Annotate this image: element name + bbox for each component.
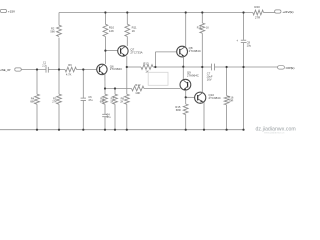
- svg-text:10R: 10R: [228, 98, 233, 102]
- svg-text:68K: 68K: [30, 99, 35, 103]
- svg-text:2K: 2K: [120, 99, 123, 103]
- svg-text:2TC984C: 2TC984C: [209, 96, 221, 100]
- svg-text:R6: R6: [68, 63, 72, 67]
- svg-text:56K: 56K: [50, 30, 55, 34]
- svg-text:+: +: [236, 39, 238, 43]
- svg-text:4.7K: 4.7K: [66, 73, 72, 77]
- svg-text:12K: 12K: [109, 29, 114, 33]
- svg-text:10K: 10K: [135, 91, 140, 95]
- svg-text:680: 680: [100, 99, 105, 103]
- svg-text:R13: R13: [143, 61, 149, 65]
- svg-text:1K: 1K: [132, 29, 136, 33]
- svg-text:47u: 47u: [88, 98, 93, 102]
- svg-text:10u: 10u: [247, 43, 252, 47]
- svg-text:1K: 1K: [110, 99, 113, 103]
- svg-text:2TC984C: 2TC984C: [110, 67, 122, 71]
- svg-text:+24V(E): +24V(E): [282, 10, 293, 14]
- svg-text:2TC984C: 2TC984C: [189, 49, 201, 53]
- svg-text:2TC733A: 2TC733A: [130, 50, 142, 54]
- svg-text:R20: R20: [254, 5, 260, 9]
- svg-text:16V: 16V: [207, 78, 212, 82]
- svg-text:2.2u: 2.2u: [42, 64, 47, 67]
- svg-text:R12: R12: [135, 83, 141, 87]
- svg-text:27K: 27K: [52, 99, 57, 103]
- svg-text:+15V: +15V: [8, 10, 16, 14]
- svg-text:R19: R19: [197, 26, 202, 29]
- svg-text:68R: 68R: [176, 108, 181, 112]
- svg-text:27R: 27R: [255, 16, 260, 20]
- svg-text:LINE_I/P: LINE_I/P: [0, 68, 11, 72]
- svg-text:1K: 1K: [206, 26, 209, 29]
- svg-text:O/P(E): O/P(E): [286, 66, 295, 70]
- svg-text:www.jiadianwx.cn: www.jiadianwx.cn: [264, 131, 285, 135]
- svg-text:2TA964C: 2TA964C: [187, 73, 199, 77]
- svg-text:47u: 47u: [107, 116, 112, 119]
